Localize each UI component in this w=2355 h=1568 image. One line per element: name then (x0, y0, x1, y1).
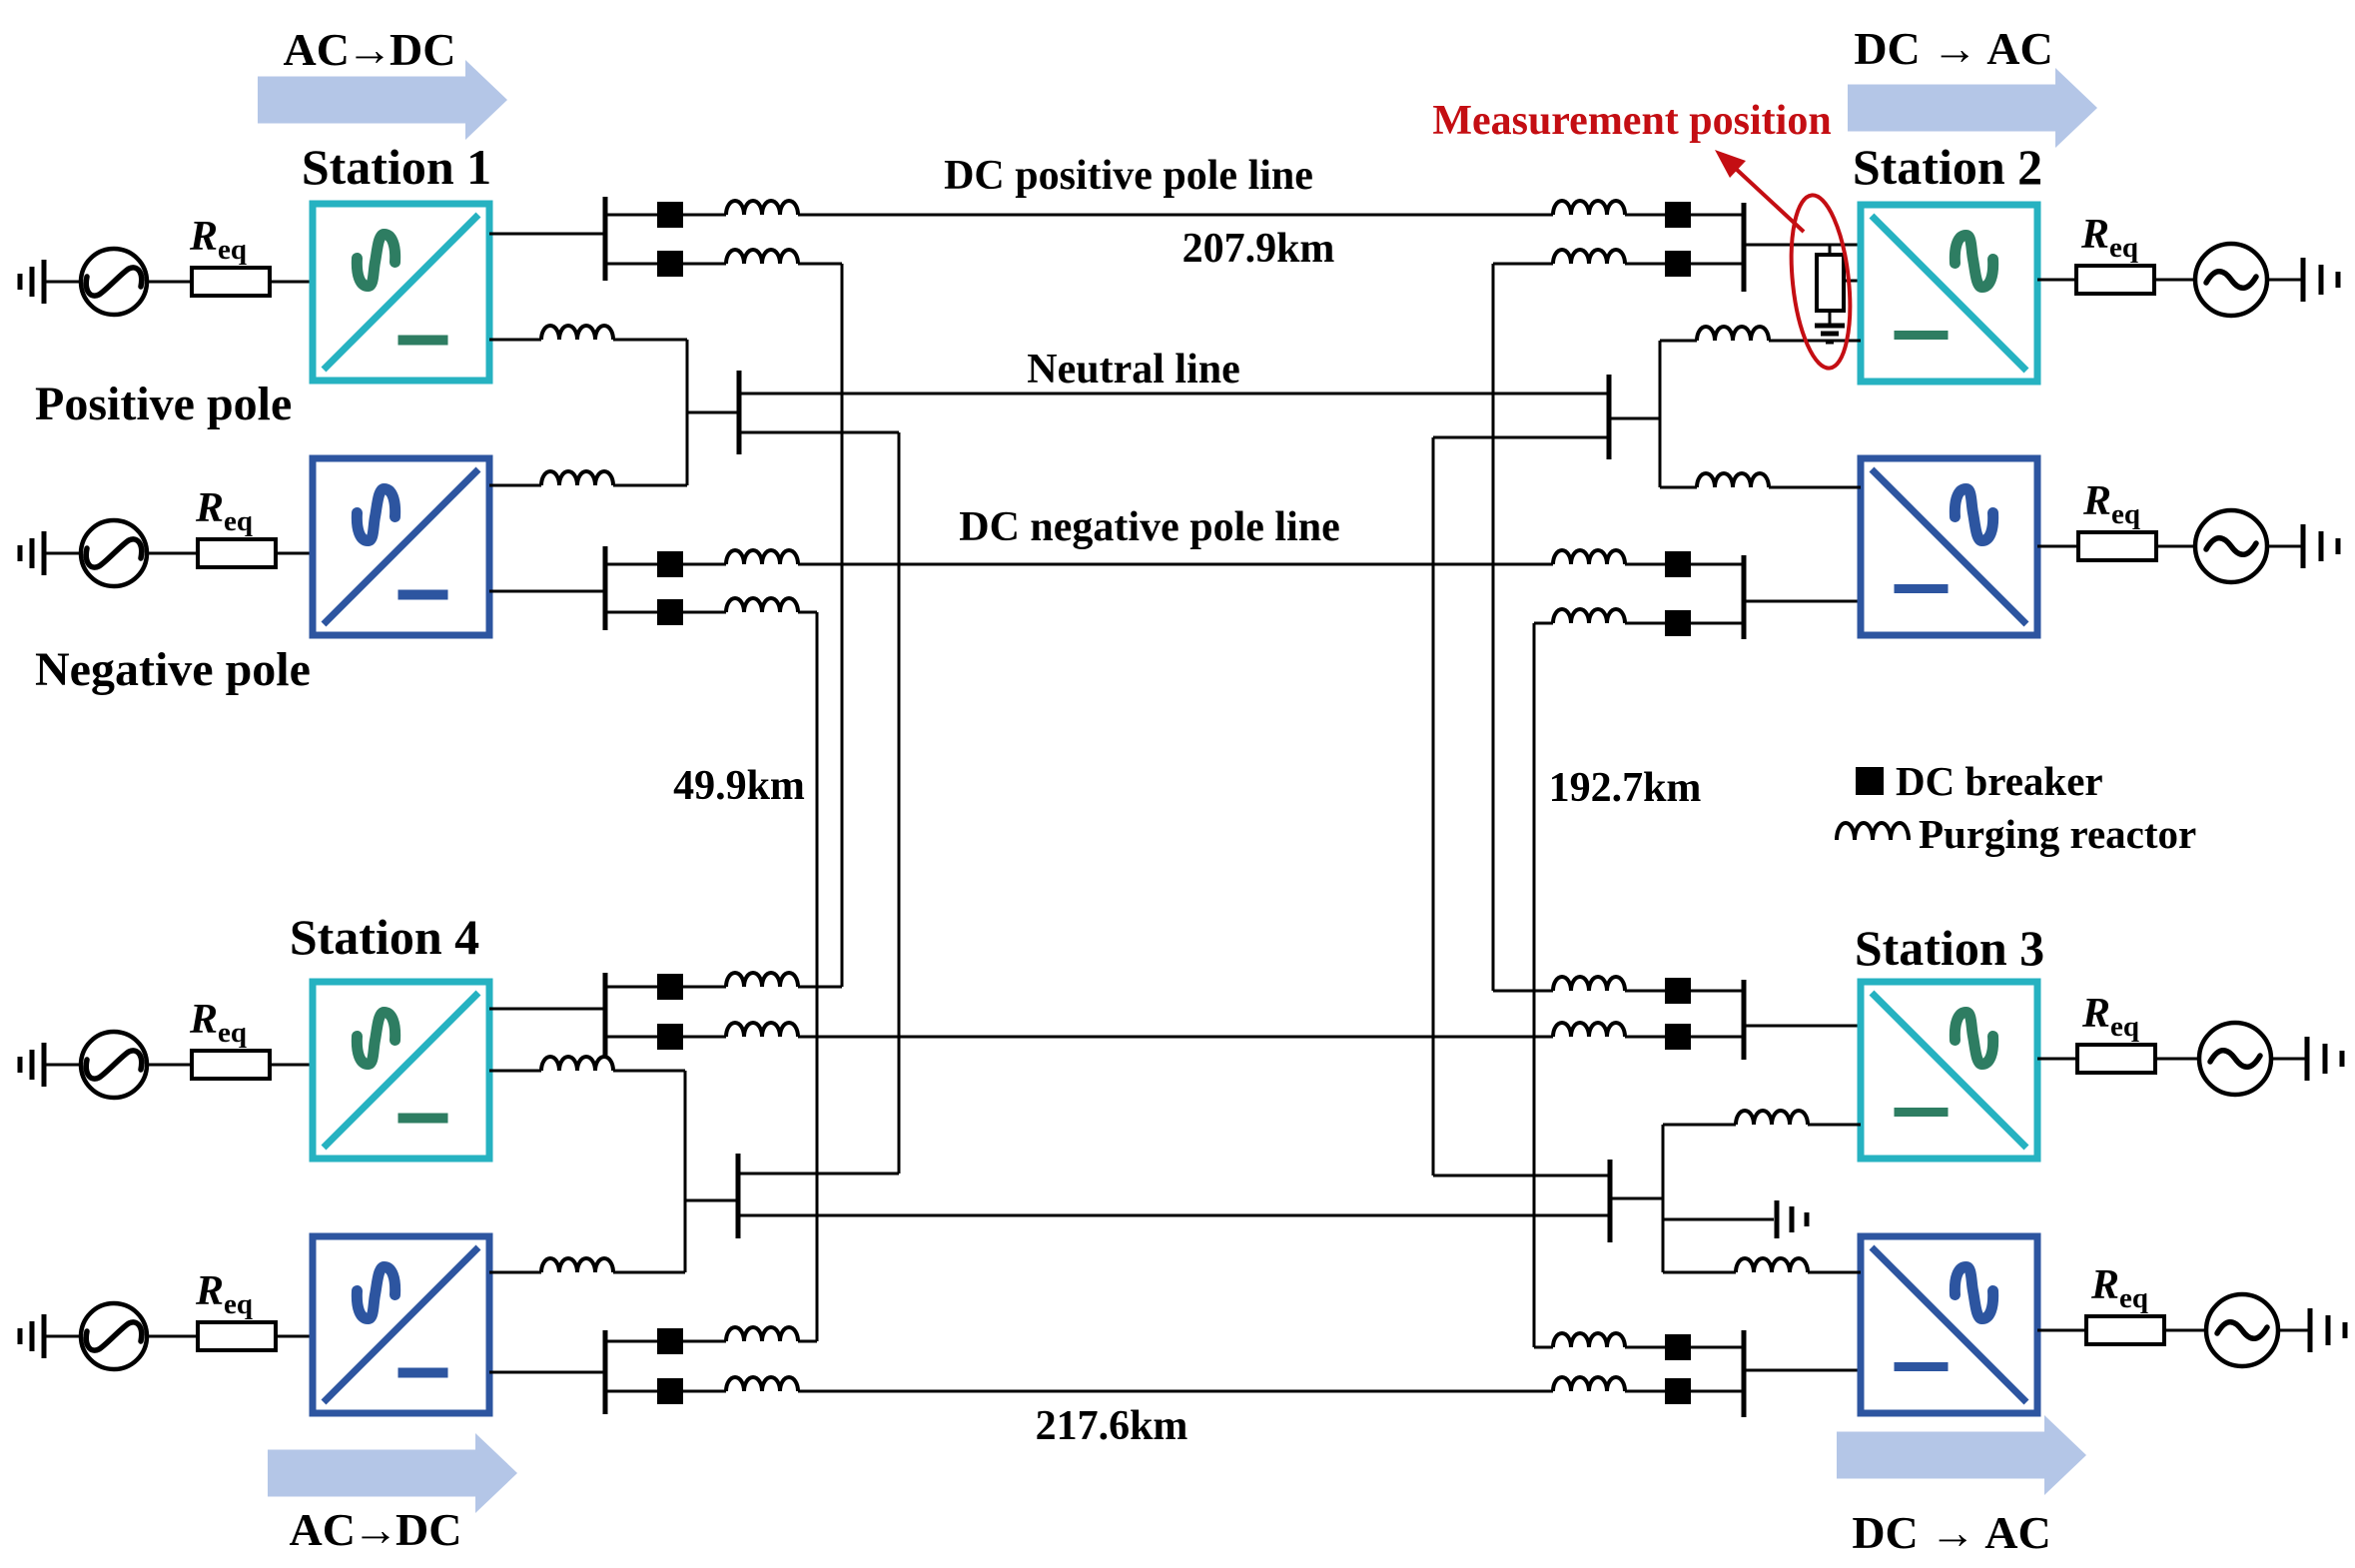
wire S1P branch 1 bus to breaker (605, 214, 657, 217)
AC source G8 (Station 3 negative) (2206, 1294, 2278, 1366)
wire converter U3 to resistor Req (2037, 279, 2076, 282)
converter U7 Station 4 positive pole (VSC) (313, 982, 489, 1159)
wire ground to AC source G2 (44, 552, 81, 555)
wire S3P breaker B14 to bus (1691, 1036, 1744, 1039)
DC breaker B4 (S1N 49.9km branch) (657, 599, 683, 625)
wire S2P breaker B6 to bus (1691, 263, 1744, 266)
wire converter U1 neutral output to reactor (489, 339, 541, 342)
arrow power flow AC to DC (top left) (258, 60, 507, 140)
purging reactor L6 (S1N 49.9km branch) (726, 598, 798, 612)
ground AC source G8 (2310, 1308, 2345, 1352)
wire S3N reactor L22 to breaker (1625, 1346, 1665, 1349)
wire S1P neutral reactor to connector (613, 339, 687, 342)
wire S1N branch 2 bus to breaker (605, 611, 657, 614)
wire S2P reactor L7 to breaker (1625, 214, 1665, 217)
wire S1N neutral reactor to connector (613, 484, 687, 487)
wire S2 connector to S2N neutral reactor (1660, 486, 1697, 489)
wire S4 neutral connector vertical (684, 1071, 687, 1272)
wire AC source G2 to resistor Req (147, 552, 198, 555)
svg-text:Purging reactor: Purging reactor (1919, 811, 2196, 857)
bus bar S1N DC (603, 546, 608, 630)
wire S4N breaker B11 to reactor (683, 1340, 726, 1343)
purging reactor L5 (S1N line branch) (726, 550, 798, 564)
DC breaker B7 (S2N line branch) (1665, 551, 1691, 577)
wire converter U7 neutral output to reactor (489, 1070, 541, 1073)
wire AC source G6 to ground (2267, 545, 2303, 548)
surge arrester A1 (measurement position) (1817, 245, 1860, 326)
bus bar S1P DC (603, 197, 608, 281)
purging reactor L4 (S1N neutral) (541, 471, 613, 485)
svg-text:Neutral line: Neutral line (1027, 347, 1239, 392)
purging reactor L2 (S1P 49.9km branch) (726, 250, 798, 264)
converter U5 Station 3 positive pole (VSC) (1861, 982, 2037, 1159)
wire resistor Req to converter U2 (276, 552, 313, 555)
wire DC line 217.6km S4N to S3N (798, 1390, 1553, 1393)
wire S1 neutral connector to bus bar (687, 411, 739, 414)
svg-text:AC→DC: AC→DC (290, 1504, 462, 1555)
legend purging reactor symbol (1837, 823, 1909, 840)
wire S1N breaker B4 to reactor (683, 611, 726, 614)
wire 192.7km negative pole vertical S2N to S3N (1533, 623, 1536, 1347)
arrow power flow DC to AC (bottom right) (1837, 1415, 2086, 1495)
DC breaker B2 (S1P 49.9km branch) (657, 251, 683, 277)
wire S1P reactor L2 to 49.9km vertical (798, 263, 842, 266)
converter U1 Station 1 positive pole (VSC) (313, 204, 489, 381)
wire Neutral line lower S4 bus to S3 bus (738, 1214, 1610, 1217)
wire S4P breaker B10 to reactor (683, 1036, 726, 1039)
wire converter U5 to resistor Req (2037, 1058, 2077, 1061)
svg-text:192.7km: 192.7km (1549, 765, 1702, 811)
wire converter U6 to resistor Req (2037, 1329, 2086, 1332)
purging reactor L15 (S4P neutral) (541, 1057, 613, 1071)
wire S3 connector to S3N neutral reactor (1663, 1271, 1736, 1274)
wire converter U4 to resistor Req (2037, 545, 2078, 548)
DC breaker B5 (S2P line branch) (1665, 202, 1691, 228)
svg-text:207.9km: 207.9km (1182, 226, 1335, 272)
wire S4N branch 1 bus to breaker (605, 1340, 657, 1343)
wire S4P branch 2 bus to breaker (605, 1036, 657, 1039)
wire S1N reactor L6 to 49.9km vertical (798, 611, 817, 614)
wire converter U2 neutral output to reactor (489, 484, 541, 487)
svg-text:Req: Req (2082, 478, 2140, 530)
DC breaker B11 (S4N 49.9km branch) (657, 1328, 683, 1354)
svg-text:DC → AC: DC → AC (1854, 23, 2052, 74)
wire AC source G7 to ground (2271, 1058, 2307, 1061)
wire DC line S4P to S3P (798, 1036, 1553, 1039)
converter U8 Station 4 negative pole (VSC) (313, 1236, 489, 1413)
svg-text:Station 3: Station 3 (1855, 920, 2044, 976)
wire S4 bus branch to neutral vertical (738, 1173, 899, 1176)
wire Neutral line upper S1 bus to S2 bus (739, 392, 1609, 395)
wire S2 bus branch to neutral vertical (1433, 436, 1609, 439)
svg-text:DC → AC: DC → AC (1852, 1507, 2050, 1558)
svg-text:Negative pole: Negative pole (35, 643, 311, 696)
wire converter U2 DC output to bus (489, 590, 605, 593)
purging reactor L7 (S2P line branch) (1553, 201, 1625, 215)
wire S3 neutral connector to bus bar (1610, 1197, 1663, 1200)
bus bar S3 neutral (1608, 1160, 1613, 1242)
AC source G7 (Station 3 positive) (2199, 1023, 2271, 1095)
purging reactor L12 (S2N neutral) (1697, 473, 1769, 487)
ground S3 neutral point (1777, 1200, 1807, 1238)
converter U4 Station 2 negative pole (VSC) (1861, 458, 2037, 635)
wire S4N neutral reactor to connector (613, 1271, 685, 1274)
wire S3 neutral connector vertical (1662, 1125, 1665, 1272)
wire S4N branch 2 bus to breaker (605, 1390, 657, 1393)
bus bar S3N DC (1742, 1330, 1747, 1417)
wire converter U8 neutral output to reactor (489, 1271, 541, 1274)
wire S3P neutral reactor to converter U5 (1808, 1124, 1861, 1127)
svg-text:Station 2: Station 2 (1853, 139, 2042, 195)
svg-text:Req: Req (195, 485, 253, 537)
arrow power flow AC to DC (bottom left) (268, 1433, 517, 1513)
wire S3N reactor L23 to breaker (1625, 1390, 1665, 1393)
wire S1P branch 2 bus to breaker (605, 263, 657, 266)
purging reactor L8 (S2P 192.7km branch) (1553, 250, 1625, 264)
wire S3P reactor L20 to breaker (1625, 1036, 1665, 1039)
converter U3 Station 2 positive pole (VSC) (1861, 205, 2037, 382)
wire S3N breaker B16 to bus (1691, 1390, 1744, 1393)
wire DC positive pole line (207.9km) S1P to S2P (798, 214, 1553, 217)
wire S3N neutral reactor to converter U6 (1808, 1271, 1861, 1274)
purging reactor L1 (S1P line branch) (726, 201, 798, 215)
DC breaker B8 (S2N 192.7km branch) (1665, 610, 1691, 636)
svg-text:Req: Req (195, 1268, 253, 1320)
wire 49.9km positive pole vertical S1P to S4P (841, 264, 844, 987)
resistor Req (Station 1 negative) (198, 539, 276, 567)
AC source G6 (Station 2 negative) (2195, 510, 2267, 582)
svg-text:Req: Req (189, 997, 247, 1049)
wire S2N reactor L11 to breaker (1625, 622, 1665, 625)
svg-text:DC breaker: DC breaker (1896, 758, 2103, 804)
ground AC source G3 (20, 1043, 44, 1087)
wire S4P breaker B9 to reactor (683, 986, 726, 989)
wire S2N reactor L10 to breaker (1625, 563, 1665, 566)
purging reactor L11 (S2N 192.7km branch) (1553, 609, 1625, 623)
wire AC source G1 to resistor Req (147, 281, 192, 284)
wire AC source G3 to resistor Req (147, 1064, 192, 1067)
ground AC source G1 (20, 260, 44, 304)
ground AC source G4 (20, 1314, 44, 1358)
wire S4N breaker B12 to reactor (683, 1390, 726, 1393)
DC breaker B3 (S1N line branch) (657, 551, 683, 577)
svg-text:Positive pole: Positive pole (35, 378, 292, 430)
svg-text:DC positive pole line: DC positive pole line (944, 153, 1313, 199)
wire converter U7 DC output to bus (489, 1008, 605, 1011)
wire S4P branch 1 bus to breaker (605, 986, 657, 989)
wire S3N bus to converter U6 (1744, 1369, 1861, 1372)
ground AC source G5 (2303, 258, 2338, 302)
wire S1N breaker B3 to reactor (683, 563, 726, 566)
DC breaker B6 (S2P 192.7km branch) (1665, 251, 1691, 277)
svg-text:Req: Req (2081, 991, 2139, 1043)
wire AC source G8 to ground (2278, 1329, 2310, 1332)
annotation arrow to measurement position (1715, 150, 1804, 232)
svg-text:Station 1: Station 1 (302, 139, 491, 195)
resistor Req (Station 3 negative) (2086, 1316, 2164, 1344)
svg-text:Req: Req (189, 214, 247, 266)
wire ground to AC source G4 (44, 1335, 81, 1338)
wire S2N breaker B8 to bus (1691, 622, 1744, 625)
wire 192.7km positive pole vertical S2P to S3P (1492, 264, 1495, 991)
purging reactor L19 (S3P 192.7km branch) (1553, 977, 1625, 991)
wire resistor Req to converter U1 (270, 281, 313, 284)
bus bar S1 neutral (737, 371, 742, 454)
resistor Req (Station 2 positive) (2076, 266, 2154, 294)
wire ground to AC source G1 (44, 281, 81, 284)
wire 49.9km negative pole vertical S1N to S4N (816, 612, 819, 1341)
bus bar S2P DC (1742, 203, 1747, 292)
purging reactor L20 (S3P line branch) (1553, 1023, 1625, 1037)
DC breaker B14 (S3P line branch) (1665, 1024, 1691, 1050)
wire ground to AC source G3 (44, 1064, 81, 1067)
purging reactor L3 (S1P neutral) (541, 326, 613, 340)
bus bar S3P DC (1742, 980, 1747, 1060)
resistor Req (Station 4 positive) (192, 1051, 270, 1079)
wire resistor Req to AC source G7 (2155, 1058, 2199, 1061)
ground AC source G2 (20, 531, 44, 575)
svg-text:49.9km: 49.9km (673, 763, 805, 809)
wire S2N breaker B7 to bus (1691, 563, 1744, 566)
DC breaker B9 (S4P 49.9km branch) (657, 974, 683, 1000)
purging reactor L21 (S3P neutral) (1736, 1111, 1808, 1125)
AC source G4 (Station 4 negative) (81, 1303, 147, 1369)
converter U2 Station 1 negative pole (VSC) (313, 458, 489, 635)
purging reactor L18 (S4N 217.6km branch) (726, 1377, 798, 1391)
wire neutral interconnect vertical S1 bus to S4 bus (898, 432, 901, 1174)
resistor Req (Station 4 negative) (198, 1322, 276, 1350)
wire S2N neutral reactor to converter U4 (1769, 486, 1861, 489)
wire resistor Req to AC source G5 (2154, 279, 2195, 282)
wire AC source G4 to resistor Req (147, 1335, 198, 1338)
legend DC breaker symbol (1856, 767, 1884, 795)
DC breaker B16 (S3N 217.6km branch) (1665, 1378, 1691, 1404)
wire S4 neutral connector to bus bar (685, 1199, 738, 1202)
wire S2N 192.7km vertical to reactor (1534, 622, 1553, 625)
wire S2 neutral connector to bus bar (1609, 417, 1660, 420)
measurement position ellipse (red) (1784, 193, 1858, 372)
AC source G1 (Station 1 positive) (81, 249, 147, 315)
ground below surge arrester A1 (1815, 326, 1845, 342)
purging reactor L23 (S3N 217.6km branch) (1553, 1377, 1625, 1391)
purging reactor L10 (S2N line branch) (1553, 550, 1625, 564)
purging reactor L9 (S2P neutral) (1697, 327, 1769, 341)
wire S1P breaker B2 to reactor (683, 263, 726, 266)
wire S4P neutral reactor to connector (613, 1070, 685, 1073)
svg-text:AC→DC: AC→DC (284, 24, 456, 75)
wire S2P reactor L8 to breaker (1625, 263, 1665, 266)
DC breaker B15 (S3N 192.7km branch) (1665, 1334, 1691, 1360)
wire S1P breaker B1 to reactor (683, 214, 726, 217)
purging reactor L14 (S4P line branch) (726, 1023, 798, 1037)
wire S4P reactor L13 to 49.9km vertical (798, 986, 842, 989)
resistor Req (Station 2 negative) (2078, 532, 2156, 560)
wire resistor Req to converter U8 (276, 1335, 313, 1338)
wire S1 bus branch to neutral vertical (739, 431, 899, 434)
wire converter U1 DC output to bus (489, 233, 605, 236)
svg-text:Req: Req (2080, 212, 2138, 264)
wire S1 neutral connector vertical (686, 340, 689, 485)
bus bar S4P DC (603, 973, 608, 1057)
wire S3P bus to converter U5 (1744, 1025, 1861, 1028)
wire S2P 192.7km vertical to reactor (1493, 263, 1553, 266)
svg-text:Station 4: Station 4 (290, 909, 479, 965)
wire resistor Req to AC source G6 (2156, 545, 2195, 548)
wire S3P reactor L19 to breaker (1625, 990, 1665, 993)
purging reactor L24 (S3N neutral) (1736, 1258, 1808, 1272)
wire resistor Req to converter U7 (270, 1064, 313, 1067)
wire resistor Req to AC source G8 (2164, 1329, 2206, 1332)
wire S2P breaker B5 to bus (1691, 214, 1744, 217)
wire converter U8 DC output to bus (489, 1371, 605, 1374)
wire S2 neutral connector vertical (1659, 341, 1662, 487)
wire neutral interconnect vertical S2 bus to S3 bus (1432, 437, 1435, 1176)
wire S2 connector to neutral reactor (1660, 340, 1697, 343)
wire S3 neutral connector to ground (1663, 1218, 1774, 1221)
AC source G3 (Station 4 positive) (81, 1032, 147, 1098)
purging reactor L22 (S3N 192.7km branch) (1553, 1333, 1625, 1347)
wire S1N branch 1 bus to breaker (605, 563, 657, 566)
wire S3 connector to S3P neutral reactor (1663, 1124, 1736, 1127)
svg-text:217.6km: 217.6km (1036, 1403, 1188, 1449)
wire S3P 192.7km vertical to reactor (1493, 990, 1553, 993)
ground AC source G6 (2303, 524, 2338, 568)
wire S4N reactor L17 to 49.9km vertical (798, 1340, 817, 1343)
DC breaker B13 (S3P 192.7km branch) (1665, 978, 1691, 1004)
wire S3N 192.7km vertical to reactor (1534, 1346, 1553, 1349)
svg-text:Req: Req (2090, 1262, 2148, 1314)
AC source G5 (Station 2 positive) (2195, 244, 2267, 316)
bus bar S2N DC (1742, 555, 1747, 639)
wire S3N breaker B15 to bus (1691, 1346, 1744, 1349)
resistor Req (Station 1 positive) (192, 268, 270, 296)
wire S3P breaker B13 to bus (1691, 990, 1744, 993)
DC breaker B12 (S4N 217.6km branch) (657, 1378, 683, 1404)
wire S2P bus to converter U3 (1744, 244, 1861, 247)
purging reactor L17 (S4N 49.9km branch) (726, 1327, 798, 1341)
bus bar S2 neutral (1607, 375, 1612, 459)
svg-text:Measurement position: Measurement position (1432, 98, 1831, 144)
purging reactor L13 (S4P 49.9km branch) (726, 973, 798, 987)
bus bar S4 neutral (736, 1154, 741, 1238)
wire DC negative pole line S1N to S2N (798, 563, 1553, 566)
DC breaker B1 (S1P line branch) (657, 202, 683, 228)
ground AC source G7 (2307, 1037, 2342, 1081)
DC breaker B10 (S4P line branch) (657, 1024, 683, 1050)
bus bar S4N DC (603, 1330, 608, 1414)
purging reactor L16 (S4N neutral) (541, 1258, 613, 1272)
converter U6 Station 3 negative pole (VSC) (1861, 1236, 2037, 1413)
wire S3 bus branch from neutral vertical (1433, 1175, 1610, 1177)
svg-text:DC negative pole line: DC negative pole line (959, 504, 1339, 550)
wire AC source G5 to ground (2267, 279, 2303, 282)
arrow power flow DC to AC (top right) (1848, 68, 2097, 148)
wire S2P neutral reactor to converter U3 (1769, 340, 1861, 343)
AC source G2 (Station 1 negative) (81, 520, 147, 586)
wire S2N bus to converter U4 (1744, 600, 1861, 603)
resistor Req (Station 3 positive) (2077, 1045, 2155, 1073)
